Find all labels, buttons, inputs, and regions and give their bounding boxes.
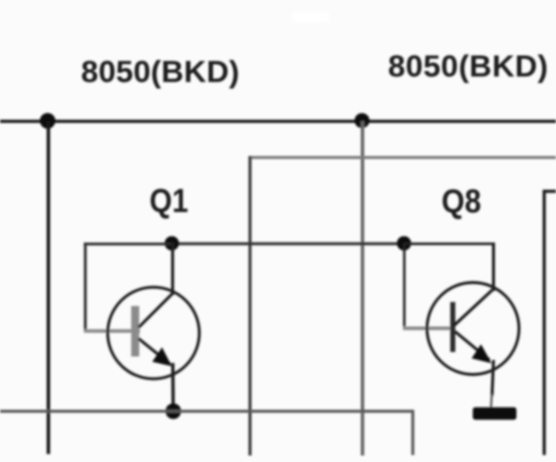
junction dot Q1 emitter on bottom rail <box>166 403 182 419</box>
svg-text:Q1: Q1 <box>150 182 189 219</box>
wire: Q8 base drop from node x=404 <box>403 243 406 329</box>
component box corner top-right <box>544 190 556 193</box>
svg-text:8050(BKD): 8050(BKD) <box>388 49 548 84</box>
junction dot mid rail <box>355 113 370 128</box>
wire: bottom rail y=411 <box>0 410 413 413</box>
wire: Q1 collector-base node to Q8 node (y=244) <box>168 242 404 245</box>
wire: Q1 feedback loop top segment <box>84 243 172 246</box>
wire: Q8 base lead <box>403 326 453 330</box>
Q8 emitter diagonal <box>455 332 490 361</box>
wire: left vertical bus x=48 <box>47 121 51 454</box>
wire: horizontal y=157 to right edge <box>250 156 556 159</box>
Q8 circle <box>427 283 519 375</box>
wire: Q8 collector drop x=493.5 <box>492 243 495 292</box>
Q1 emitter diagonal <box>139 339 171 365</box>
wire: Q8 node to collector corner <box>404 242 494 245</box>
junction dot left rail <box>40 113 56 129</box>
junction dot Q8 collector-base node <box>397 236 411 250</box>
Q8 collector diagonal <box>454 290 493 326</box>
svg-text:Q8: Q8 <box>442 183 482 220</box>
wire: Q1 base lead <box>84 329 140 333</box>
wire: top supply rail y=121 <box>0 120 556 123</box>
wire: bottom rail corner drop x=413 <box>411 410 414 455</box>
Q8 base bar <box>450 302 455 352</box>
Q8 emitter arrowhead <box>472 344 492 363</box>
junction dot Q1 collector node <box>165 236 179 250</box>
faint white smudge top center <box>292 12 329 22</box>
Q1 collector diagonal <box>139 293 173 327</box>
transistor Q1 <box>108 242 200 411</box>
Q8 emitter lead lower taper <box>490 394 493 408</box>
transistor Q8 <box>427 283 519 409</box>
component box left edge x=544 <box>543 190 546 455</box>
Q8 emitter lead <box>492 360 494 396</box>
Q1 base bar <box>131 306 139 357</box>
wire: Q1 feedback loop vertical x=85 <box>84 243 87 332</box>
svg-text:8050(BKD): 8050(BKD) <box>81 54 240 89</box>
wire: vertical bus x=362 <box>361 121 364 456</box>
Q1 emitter lead <box>171 363 175 411</box>
ground symbol <box>473 407 517 419</box>
Q1 collector lead <box>171 242 174 295</box>
Q1 emitter arrowhead <box>152 347 172 366</box>
wire: vertical bus x=250 <box>248 156 251 456</box>
Q1 circle <box>108 287 200 379</box>
